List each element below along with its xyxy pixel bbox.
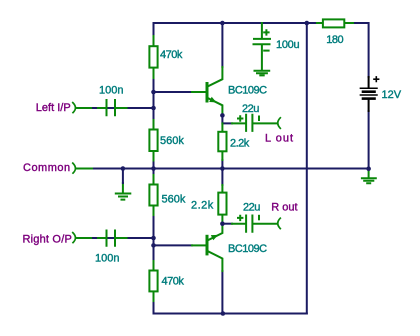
- junction Q2 emitter / R out tap: [220, 221, 225, 226]
- wire mid rail Q1 collector up: [221, 23, 223, 67]
- wire top right to battery: [307, 23, 369, 77]
- connector Right O/P: [73, 233, 76, 243]
- wire top rail: [154, 22, 307, 24]
- junction supply rail / 180 resistor: [305, 21, 310, 26]
- svg-text:Left I/P: Left I/P: [36, 102, 71, 114]
- svg-text:L out: L out: [265, 133, 294, 145]
- svg-text:2.2k: 2.2k: [230, 138, 250, 150]
- junction Q2 base / bias rail: [151, 243, 156, 248]
- connector L out: [278, 118, 281, 129]
- wire Q1 emitter to L out tap: [222, 115, 232, 123]
- capacitor C2 100n: [98, 231, 127, 246]
- wire right-mid rail: [306, 23, 308, 314]
- capacitor C4 22u: [232, 216, 278, 232]
- svg-text:Common: Common: [23, 162, 71, 174]
- wire mid rail between 2.2k resistors: [221, 160, 223, 185]
- resistor R5 2.2k top: [218, 123, 226, 160]
- resistor R1 470k: [149, 36, 157, 78]
- battery B1 12V: [360, 77, 378, 111]
- junction Q1 emitter / L out tap: [220, 113, 225, 118]
- connector Left I/P: [73, 103, 76, 113]
- svg-text:BC109C: BC109C: [228, 85, 267, 97]
- resistor R7 180: [317, 19, 353, 27]
- junction battery negative / ground: [366, 166, 371, 171]
- wire battery to ground: [368, 111, 370, 169]
- junction left input / bias rail: [151, 106, 156, 111]
- junction common wire / 2.2k midpoint: [220, 166, 225, 171]
- capacitor C1 100n: [98, 100, 127, 115]
- wire Q2 collector down: [221, 271, 223, 314]
- connector R out: [278, 218, 281, 228]
- connector Common: [73, 163, 76, 173]
- junction 470k-560k / Q1 base: [151, 90, 156, 95]
- svg-text:470k: 470k: [160, 49, 183, 61]
- svg-text:Right O/P: Right O/P: [23, 233, 73, 245]
- wire left input: [77, 107, 154, 109]
- resistor R6 2.2k bottom: [218, 185, 226, 223]
- svg-text:22u: 22u: [243, 201, 260, 213]
- svg-text:180: 180: [326, 34, 343, 46]
- wire R out tap: [222, 223, 232, 225]
- svg-text:R out: R out: [271, 201, 297, 213]
- svg-text:560k: 560k: [160, 135, 184, 147]
- svg-text:12V: 12V: [382, 89, 402, 101]
- svg-text:100n: 100n: [99, 85, 123, 97]
- junction common wire / left bias rail: [151, 166, 156, 171]
- svg-text:22u: 22u: [242, 103, 259, 115]
- wire Q2 base: [154, 244, 193, 246]
- wire bottom rail: [154, 313, 307, 315]
- resistor R3 560k: [149, 175, 157, 215]
- wire right input: [77, 237, 154, 239]
- junction Q2 collector / bottom rail: [221, 311, 226, 316]
- junction Q1 collector / top rail: [220, 21, 225, 26]
- svg-text:100n: 100n: [95, 253, 119, 265]
- capacitor C3 22u: [232, 115, 278, 131]
- ground under Common wire: [116, 183, 131, 200]
- svg-text:100u: 100u: [276, 39, 299, 51]
- ground at battery negative: [362, 169, 376, 184]
- svg-text:2.2k: 2.2k: [191, 200, 214, 212]
- junction common wire / ground symbol: [121, 166, 126, 171]
- wire left rail: [153, 23, 155, 314]
- resistor R2 560k: [149, 120, 157, 161]
- junction right input / bias rail: [151, 236, 156, 241]
- resistor R4 470k: [149, 261, 157, 301]
- ground under 100u: [255, 71, 270, 76]
- wire Q1 base: [154, 91, 193, 93]
- transistor Q2 BC109C: [192, 224, 222, 271]
- capacitor C5 100u: [254, 23, 271, 70]
- transistor Q1 BC109C: [192, 67, 222, 115]
- svg-text:560k: 560k: [162, 193, 186, 205]
- svg-text:BC109C: BC109C: [228, 243, 267, 255]
- svg-text:470k: 470k: [162, 276, 185, 288]
- wire ground line horizontal: [77, 168, 369, 170]
